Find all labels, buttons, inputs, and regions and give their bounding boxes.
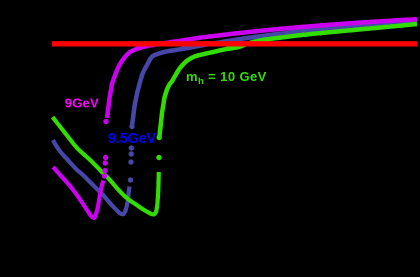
svg-text:9GeV: 9GeV bbox=[65, 96, 99, 111]
svg-text:9.5GeV: 9.5GeV bbox=[108, 131, 156, 147]
